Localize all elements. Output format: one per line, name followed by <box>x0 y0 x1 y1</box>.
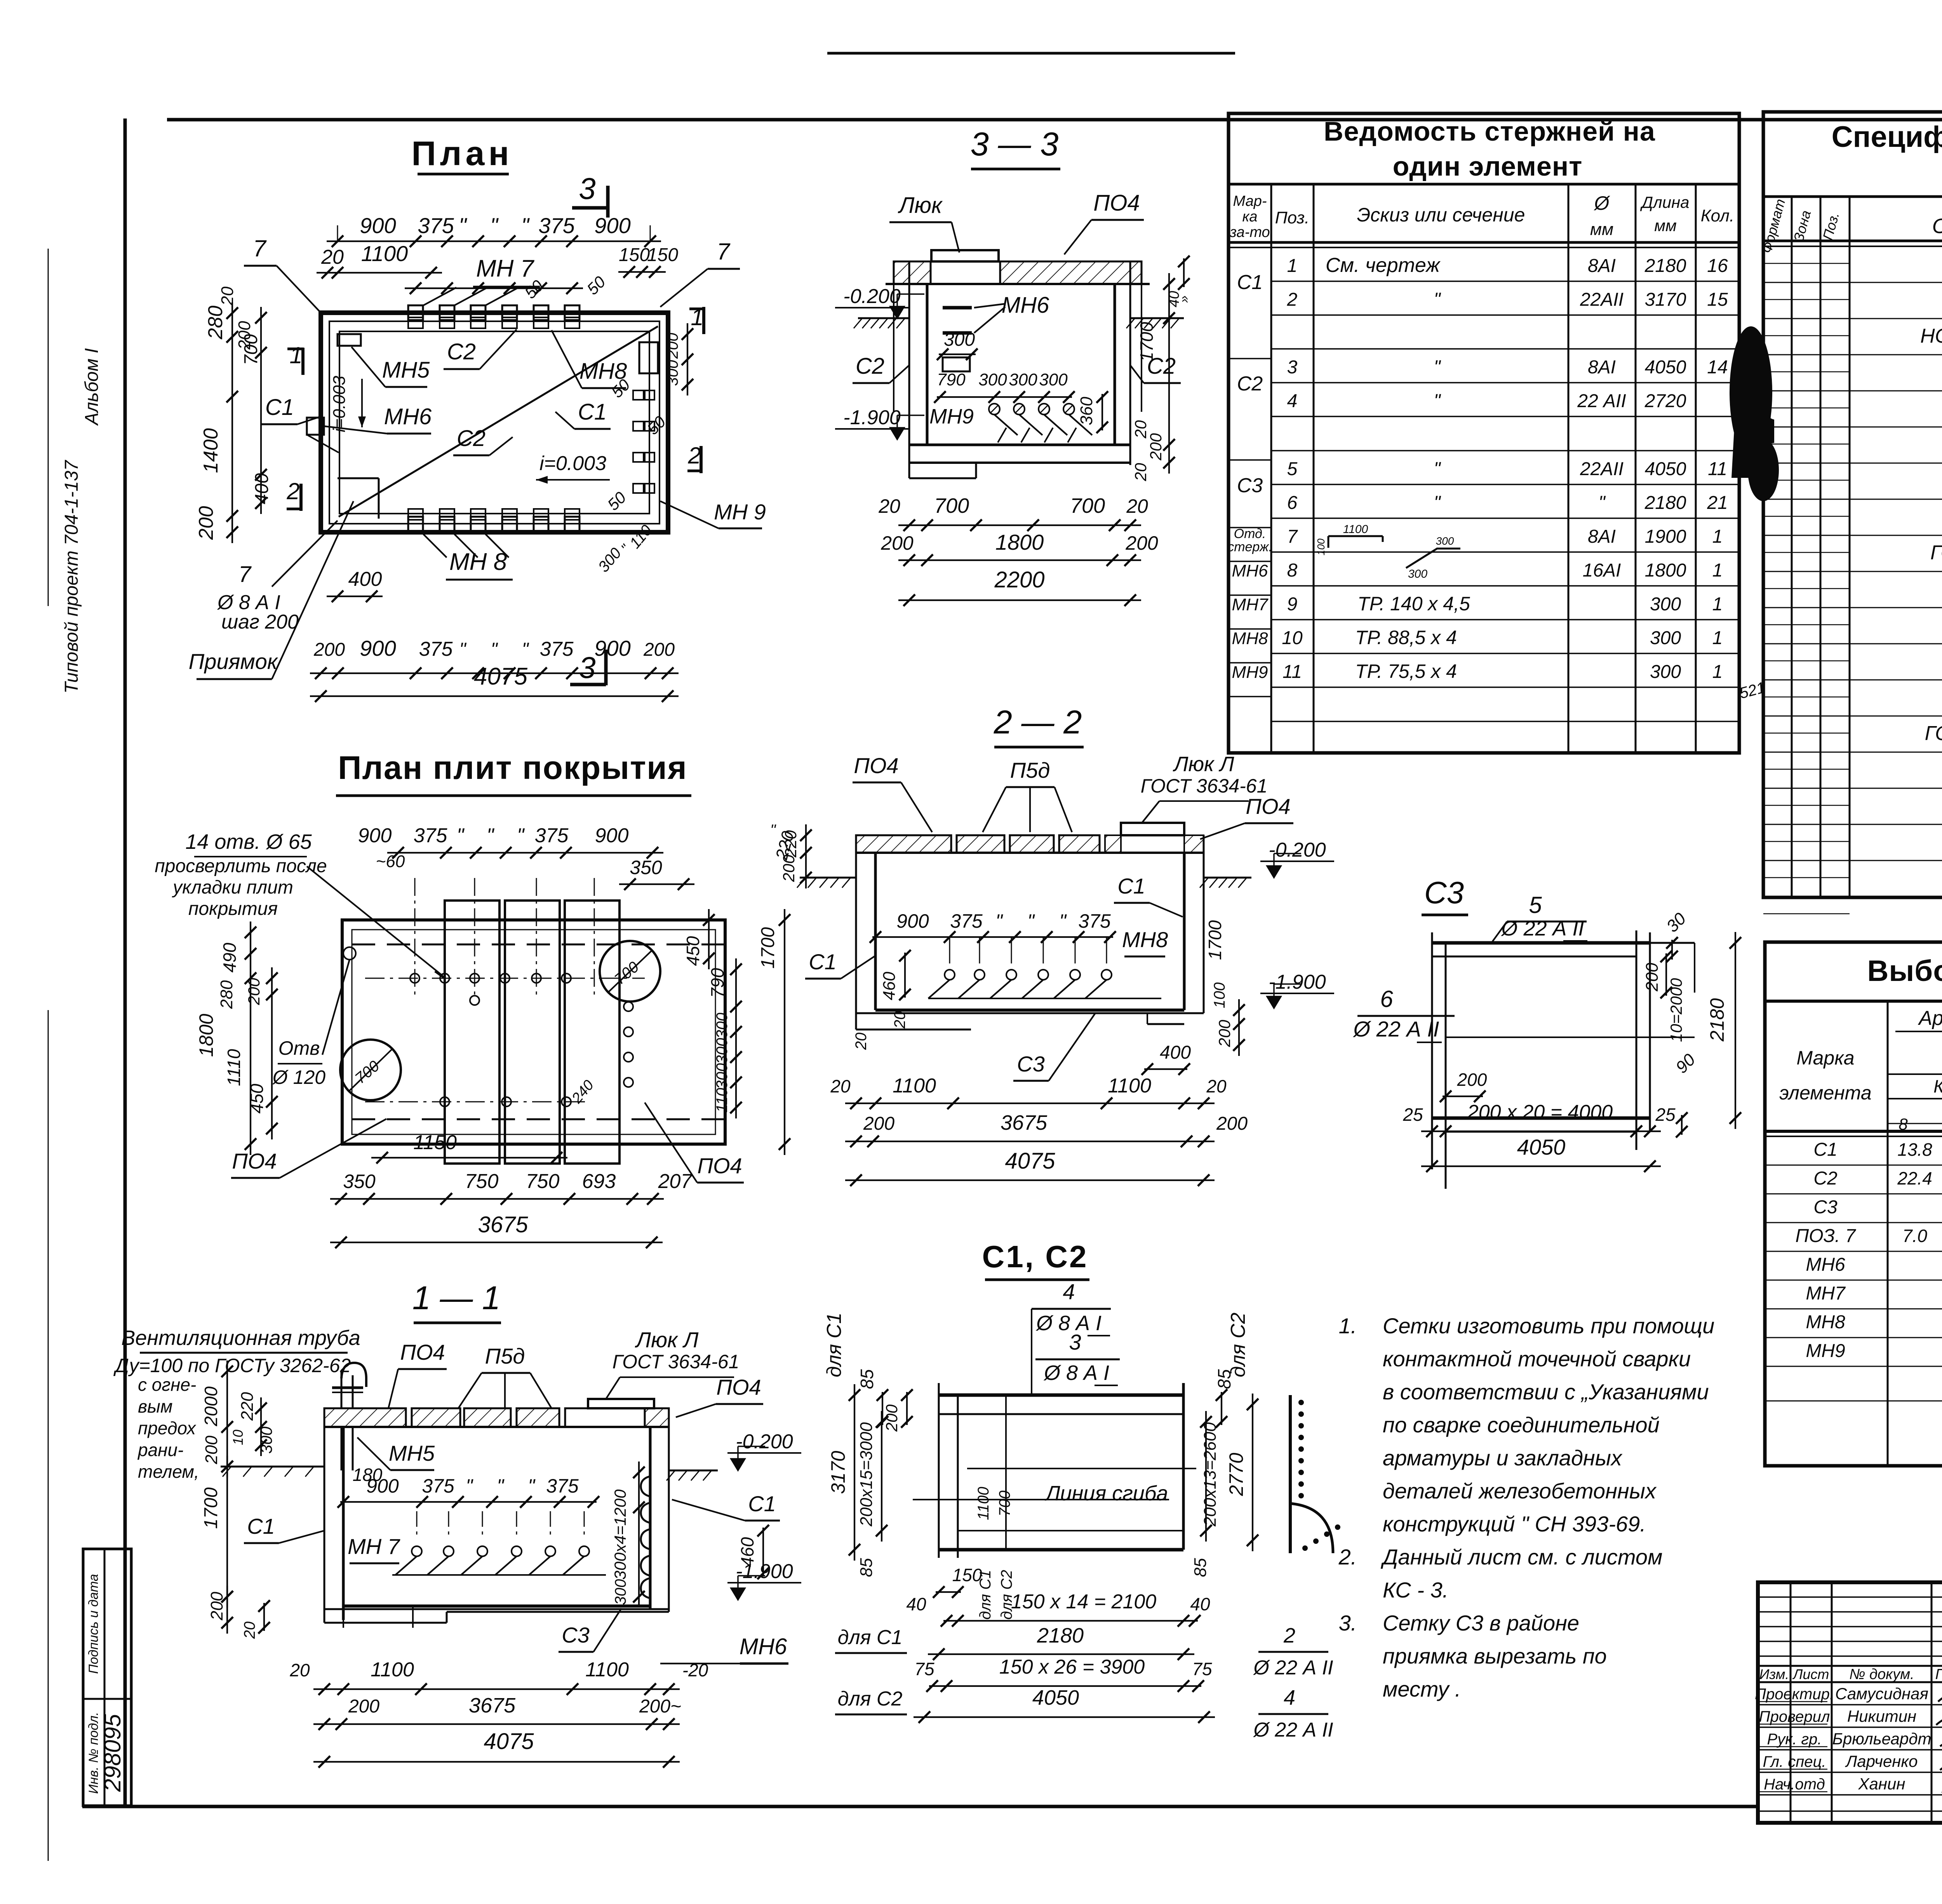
svg-text:План плит покрытия: План плит покрытия <box>338 749 687 786</box>
svg-text:МН7: МН7 <box>1806 1283 1846 1304</box>
svg-text:3675: 3675 <box>469 1694 516 1717</box>
svg-text:2000: 2000 <box>201 1386 221 1427</box>
svg-text:1110: 1110 <box>224 1049 244 1086</box>
svg-text:700: 700 <box>934 494 969 517</box>
svg-text:25: 25 <box>1403 1104 1423 1125</box>
svg-text:Поз.: Поз. <box>1275 208 1310 227</box>
svg-text:С2: С2 <box>1813 1168 1837 1189</box>
svg-text:П5д: П5д <box>485 1344 525 1368</box>
svg-text:С1: С1 <box>1813 1139 1837 1160</box>
svg-text:1100: 1100 <box>1343 523 1368 536</box>
svg-text:Ø 22 А II: Ø 22 А II <box>1353 1017 1439 1041</box>
svg-text:ТР. 75,5 х 4: ТР. 75,5 х 4 <box>1355 660 1457 682</box>
svg-text:21: 21 <box>1707 493 1728 513</box>
svg-text:МН6: МН6 <box>1806 1254 1845 1275</box>
svg-text:ПО4: ПО4 <box>1246 794 1290 819</box>
svg-text:Ø 22 А II: Ø 22 А II <box>1253 1657 1333 1679</box>
svg-text:Арматурные изделия: Арматурные изделия <box>1918 1007 1942 1030</box>
svg-text:1700: 1700 <box>758 927 778 969</box>
svg-text:ПО4: ПО4 <box>1093 190 1140 216</box>
svg-text:ГОСТ 3262-62: ГОСТ 3262-62 <box>1930 542 1942 564</box>
svg-text:МН9: МН9 <box>929 405 974 428</box>
svg-text:конструкций " СН 393-69.: конструкций " СН 393-69. <box>1383 1512 1646 1536</box>
svg-text:2.: 2. <box>1338 1545 1357 1569</box>
svg-text:10: 10 <box>230 1430 246 1445</box>
svg-text:2720: 2720 <box>1644 391 1686 411</box>
svg-text:-1.900: -1.900 <box>1269 971 1326 993</box>
svg-text:": " <box>521 213 530 238</box>
svg-text:по сварке соединительной: по сварке соединительной <box>1383 1413 1660 1437</box>
svg-text:200: 200 <box>207 1592 226 1621</box>
svg-text:200: 200 <box>202 1435 221 1465</box>
svg-text:в соответствии с „Указаниями: в соответствии с „Указаниями <box>1383 1380 1709 1404</box>
svg-text:1100: 1100 <box>361 241 408 266</box>
svg-text:С2: С2 <box>1237 373 1263 395</box>
svg-text:4050: 4050 <box>1032 1686 1079 1709</box>
svg-text:Ларченко: Ларченко <box>1845 1752 1918 1770</box>
svg-text:6: 6 <box>1287 493 1298 513</box>
svg-text:375: 375 <box>414 824 448 847</box>
svg-text:150 х 26 = 3900: 150 х 26 = 3900 <box>999 1656 1145 1678</box>
svg-text:Линия сгиба: Линия сгиба <box>1045 1482 1168 1505</box>
svg-text:МН 9: МН 9 <box>714 500 766 524</box>
svg-text:2180: 2180 <box>1644 256 1686 276</box>
svg-text:9: 9 <box>1287 594 1298 615</box>
svg-text:МН8: МН8 <box>1232 629 1268 648</box>
svg-text:11: 11 <box>1282 662 1302 682</box>
svg-text:200х15=3000: 200х15=3000 <box>857 1422 876 1527</box>
svg-text:22 АII: 22 АII <box>1577 391 1626 411</box>
svg-text:С1, С2: С1, С2 <box>982 1239 1088 1274</box>
svg-text:Данный лист см. с листом: Данный лист см. с листом <box>1380 1545 1662 1569</box>
svg-text:1100: 1100 <box>975 1487 992 1520</box>
svg-text:за-то: за-то <box>1229 224 1270 240</box>
svg-text:375: 375 <box>422 1475 454 1497</box>
svg-text:МН8: МН8 <box>1122 927 1168 952</box>
svg-text:20: 20 <box>241 1622 258 1639</box>
svg-text:": " <box>490 213 499 238</box>
svg-text:375: 375 <box>1078 910 1111 932</box>
svg-text:4050: 4050 <box>1645 357 1686 378</box>
svg-text:С1: С1 <box>265 395 294 420</box>
svg-text:МН9: МН9 <box>1806 1341 1845 1361</box>
svg-text:арматуры и закладных: арматуры и закладных <box>1383 1446 1623 1470</box>
svg-text:220: 220 <box>781 830 800 858</box>
svg-text:См. чертеж: См. чертеж <box>1326 254 1441 277</box>
svg-text:ГОСТ 3634-61: ГОСТ 3634-61 <box>613 1351 740 1373</box>
svg-text:700: 700 <box>996 1491 1013 1517</box>
svg-text:750: 750 <box>465 1170 499 1193</box>
svg-text:": " <box>459 639 466 660</box>
svg-text:~60: ~60 <box>376 852 405 871</box>
svg-text:для С1: для С1 <box>823 1313 846 1378</box>
svg-text:": " <box>517 824 525 847</box>
svg-text:Ведомость стержней на: Ведомость стержней на <box>1324 116 1655 146</box>
svg-text:375: 375 <box>540 638 574 660</box>
svg-text:Ø 120: Ø 120 <box>272 1066 325 1088</box>
svg-text:2 — 2: 2 — 2 <box>994 704 1082 741</box>
svg-text:22АII: 22АII <box>1580 459 1624 479</box>
svg-text:10=2000: 10=2000 <box>1667 978 1685 1042</box>
svg-text:для С2: для С2 <box>838 1688 903 1710</box>
svg-text:Изм.: Изм. <box>1759 1666 1789 1682</box>
svg-text:покрытия: покрытия <box>188 899 278 919</box>
svg-text:С1: С1 <box>578 399 607 425</box>
svg-text:375: 375 <box>418 213 454 238</box>
svg-text:75: 75 <box>914 1659 934 1679</box>
svg-text:-0.200: -0.200 <box>1269 839 1326 861</box>
svg-text:Сетки изготовить при помощи: Сетки изготовить при помощи <box>1383 1313 1714 1338</box>
svg-text:200: 200 <box>882 1404 901 1432</box>
svg-text:300: 300 <box>1009 370 1037 389</box>
svg-text:С3: С3 <box>562 1623 590 1647</box>
svg-text:7: 7 <box>238 562 252 587</box>
svg-text:6: 6 <box>1380 986 1393 1012</box>
svg-text:мм: мм <box>1590 220 1613 239</box>
svg-text:20: 20 <box>878 495 900 517</box>
svg-text:4050: 4050 <box>1517 1135 1566 1159</box>
svg-text:Ø: Ø <box>1594 192 1611 214</box>
svg-text:300: 300 <box>713 1038 731 1064</box>
svg-text:790: 790 <box>707 968 727 998</box>
svg-text:С3: С3 <box>1237 474 1263 497</box>
svg-text:3.: 3. <box>1339 1611 1357 1635</box>
svg-text:300х4=1200: 300х4=1200 <box>611 1489 629 1580</box>
svg-text:16: 16 <box>1707 256 1728 276</box>
svg-text:110: 110 <box>713 1088 731 1113</box>
svg-text:МН6: МН6 <box>1232 561 1268 580</box>
svg-text:1800: 1800 <box>995 530 1044 554</box>
svg-text:С1: С1 <box>247 1514 275 1538</box>
svg-text:3: 3 <box>579 171 595 206</box>
svg-text:3: 3 <box>1287 357 1298 378</box>
svg-text:400: 400 <box>348 568 382 591</box>
svg-text:350: 350 <box>343 1171 376 1192</box>
svg-text:150: 150 <box>619 245 650 265</box>
svg-text:1100: 1100 <box>1108 1075 1151 1097</box>
svg-text:8: 8 <box>1287 560 1298 581</box>
svg-text:С1: С1 <box>748 1491 776 1516</box>
svg-text:900: 900 <box>360 213 396 238</box>
svg-text:Никитин: Никитин <box>1847 1707 1916 1725</box>
svg-text:Люк Л: Люк Л <box>1173 753 1234 776</box>
svg-text:2: 2 <box>286 478 299 504</box>
svg-text:14: 14 <box>1707 357 1728 378</box>
svg-text:2: 2 <box>1287 289 1298 310</box>
svg-text:200: 200 <box>643 639 675 660</box>
svg-text:3 — 3: 3 — 3 <box>971 126 1059 163</box>
svg-text:": " <box>522 639 529 660</box>
svg-text:900: 900 <box>594 636 630 660</box>
svg-text:900: 900 <box>366 1475 399 1497</box>
svg-text:4050: 4050 <box>1645 459 1686 479</box>
svg-text:ПО4: ПО4 <box>400 1340 445 1364</box>
svg-text:месту .: месту . <box>1383 1677 1461 1701</box>
svg-text:3: 3 <box>1069 1330 1081 1354</box>
svg-text:для С1: для С1 <box>838 1626 903 1649</box>
svg-text:20: 20 <box>830 1076 851 1096</box>
svg-text:Длина: Длина <box>1640 193 1689 211</box>
svg-text:С3: С3 <box>1813 1197 1838 1218</box>
svg-text:Проектир.: Проектир. <box>1755 1686 1834 1703</box>
svg-text:МН6: МН6 <box>1002 293 1049 318</box>
svg-text:Проверил: Проверил <box>1759 1708 1830 1725</box>
svg-text:МН 8: МН 8 <box>449 549 507 575</box>
svg-text:МН9: МН9 <box>1232 663 1268 682</box>
svg-text:для С1: для С1 <box>977 1570 994 1620</box>
svg-text:200: 200 <box>313 639 345 660</box>
svg-text:ГОСТ 3634-61: ГОСТ 3634-61 <box>1141 775 1268 797</box>
svg-text:7: 7 <box>253 235 267 261</box>
svg-text:-0.200: -0.200 <box>843 285 901 308</box>
svg-text:": " <box>487 824 495 847</box>
svg-text:": " <box>457 824 465 847</box>
svg-text:-1.900: -1.900 <box>843 406 901 429</box>
svg-text:С1: С1 <box>1117 874 1145 898</box>
svg-text:16АI: 16АI <box>1583 560 1621 581</box>
svg-text:МН8: МН8 <box>1806 1312 1845 1333</box>
svg-text:200: 200 <box>664 333 681 359</box>
svg-text:i=0.003: i=0.003 <box>330 376 349 432</box>
svg-text:100: 100 <box>1211 982 1228 1009</box>
svg-text:1: 1 <box>289 342 302 368</box>
svg-text:1100: 1100 <box>585 1658 629 1681</box>
svg-text:150: 150 <box>647 245 678 265</box>
svg-text:Типовой проект 704-1-137: Типовой проект 704-1-137 <box>61 460 82 693</box>
svg-text:85: 85 <box>1191 1558 1210 1577</box>
svg-text:7.0: 7.0 <box>1902 1226 1927 1246</box>
svg-text:400: 400 <box>252 473 272 504</box>
svg-text:ТР. 88,5 х 4: ТР. 88,5 х 4 <box>1355 627 1457 648</box>
svg-text:ПОЗ. 7: ПОЗ. 7 <box>1796 1226 1857 1246</box>
svg-text:для С2: для С2 <box>1227 1313 1249 1378</box>
svg-text:85: 85 <box>1214 1369 1234 1389</box>
svg-text:мм: мм <box>1654 216 1677 235</box>
svg-text:Отв: Отв <box>278 1037 320 1059</box>
svg-text:8АI: 8АI <box>1588 256 1616 276</box>
svg-text:490: 490 <box>219 942 240 972</box>
svg-text:22АII: 22АII <box>1580 289 1624 310</box>
svg-text:2200: 2200 <box>994 567 1044 592</box>
svg-text:100: 100 <box>1315 538 1327 556</box>
svg-text:1400: 1400 <box>200 428 222 473</box>
svg-text:ПО4: ПО4 <box>716 1375 761 1399</box>
svg-text:Кол.: Кол. <box>1701 206 1734 225</box>
svg-text:20: 20 <box>1206 1076 1227 1096</box>
svg-text:7: 7 <box>717 239 731 265</box>
svg-text:200: 200 <box>1457 1070 1487 1090</box>
svg-text:КС - 3.: КС - 3. <box>1383 1578 1448 1602</box>
svg-text:8АI: 8АI <box>1588 357 1616 378</box>
svg-text:деталей железобетонных: деталей железобетонных <box>1383 1479 1657 1503</box>
svg-text:1700: 1700 <box>201 1487 221 1529</box>
svg-text:Ø 8 А I: Ø 8 А I <box>1043 1361 1109 1385</box>
svg-text:11: 11 <box>1708 459 1727 479</box>
svg-text:20: 20 <box>289 1660 310 1680</box>
svg-text:300: 300 <box>1650 662 1681 682</box>
svg-text:МН5: МН5 <box>389 1441 435 1465</box>
svg-text:укладки плит: укладки плит <box>172 877 293 898</box>
svg-text:Ø 8 А I: Ø 8 А I <box>1035 1312 1102 1335</box>
svg-text:Мар-: Мар- <box>1233 193 1267 209</box>
svg-text:План: План <box>411 134 513 172</box>
svg-text:1100: 1100 <box>893 1075 936 1097</box>
svg-text:750: 750 <box>526 1170 560 1193</box>
svg-text:Подпись: Подпись <box>1935 1666 1942 1683</box>
svg-text:13.8: 13.8 <box>1897 1139 1932 1160</box>
svg-text:900: 900 <box>360 636 396 660</box>
svg-text:Нач.отд: Нач.отд <box>1764 1776 1825 1793</box>
svg-text:20: 20 <box>1131 463 1150 481</box>
svg-text:75: 75 <box>1192 1659 1212 1679</box>
svg-text:-20: -20 <box>682 1660 708 1680</box>
svg-text:200: 200 <box>863 1113 894 1134</box>
svg-text:4: 4 <box>1063 1279 1075 1304</box>
svg-text:С2: С2 <box>447 339 476 364</box>
svg-text:460: 460 <box>880 972 899 1000</box>
svg-text:1: 1 <box>1712 628 1723 648</box>
svg-text:Брюльеардт: Брюльеардт <box>1832 1730 1932 1748</box>
svg-text:Вентиляционная труба: Вентиляционная труба <box>121 1326 360 1350</box>
svg-text:1900: 1900 <box>1645 526 1686 547</box>
svg-text:Приямок: Приямок <box>189 649 278 674</box>
svg-text:": " <box>1434 289 1441 310</box>
svg-text:300: 300 <box>1408 568 1427 580</box>
svg-text:200~: 200~ <box>639 1696 681 1717</box>
svg-text:": " <box>1059 910 1067 932</box>
svg-text:1700: 1700 <box>1136 322 1157 362</box>
svg-text:Ø 22 А II: Ø 22 А II <box>1500 917 1584 940</box>
svg-text:стерж.: стерж. <box>1227 540 1272 554</box>
svg-text:": " <box>459 213 467 238</box>
svg-text:40: 40 <box>906 1594 926 1614</box>
svg-text:693: 693 <box>582 1170 616 1193</box>
svg-text:300: 300 <box>1650 594 1681 615</box>
svg-text:700: 700 <box>1070 494 1105 517</box>
svg-text:450: 450 <box>683 936 703 966</box>
svg-text:280: 280 <box>204 306 227 340</box>
svg-text:2180: 2180 <box>1644 493 1686 513</box>
svg-text:900: 900 <box>595 824 629 847</box>
svg-text:300: 300 <box>713 1013 731 1039</box>
svg-text:С3: С3 <box>1017 1052 1045 1076</box>
svg-text:200х13=2600: 200х13=2600 <box>1201 1422 1220 1527</box>
svg-text:20: 20 <box>891 1011 908 1029</box>
svg-text:": " <box>995 910 1003 932</box>
svg-text:": " <box>1598 493 1606 513</box>
svg-text:С2: С2 <box>856 354 884 379</box>
svg-text:4075: 4075 <box>1005 1148 1055 1174</box>
svg-text:Обозначение: Обозначение <box>1932 214 1942 238</box>
svg-text:3170: 3170 <box>827 1451 849 1494</box>
svg-text:375: 375 <box>538 213 575 238</box>
svg-text:1700: 1700 <box>1205 920 1225 960</box>
svg-text:200: 200 <box>1125 532 1158 554</box>
svg-text:20: 20 <box>853 1033 870 1050</box>
svg-text:4075: 4075 <box>484 1729 534 1754</box>
svg-text:2: 2 <box>1283 1624 1295 1647</box>
svg-text:ТР. 140 х 4,5: ТР. 140 х 4,5 <box>1357 593 1470 615</box>
svg-text:200: 200 <box>195 506 218 540</box>
svg-text:375: 375 <box>546 1475 579 1497</box>
svg-text:НС-01-04 вып. 2: НС-01-04 вып. 2 <box>1920 325 1942 347</box>
svg-text:Сетку С3 в районе: Сетку С3 в районе <box>1383 1611 1579 1635</box>
svg-text:с огне-: с огне- <box>138 1374 196 1395</box>
svg-text:МН6: МН6 <box>384 404 432 429</box>
svg-text:рани-: рани- <box>137 1440 183 1460</box>
svg-text:900: 900 <box>358 824 392 847</box>
svg-text:150 х 14 = 2100: 150 х 14 = 2100 <box>1011 1590 1157 1613</box>
svg-text:ПО4: ПО4 <box>854 753 898 778</box>
svg-text:": " <box>1434 357 1441 378</box>
svg-text:1100: 1100 <box>371 1658 414 1681</box>
svg-text:2: 2 <box>687 442 701 469</box>
svg-text:300: 300 <box>1436 535 1454 547</box>
svg-text:1800: 1800 <box>195 1014 217 1057</box>
svg-text:5: 5 <box>1287 459 1298 479</box>
svg-text:контактной точечной сварки: контактной точечной сварки <box>1383 1347 1691 1371</box>
svg-text:460: 460 <box>737 1537 757 1567</box>
svg-text:450: 450 <box>247 1084 267 1113</box>
svg-text:3675: 3675 <box>478 1212 528 1237</box>
svg-text:": " <box>491 639 498 660</box>
svg-text:375: 375 <box>419 638 453 660</box>
svg-text:элемента: элемента <box>1779 1082 1871 1104</box>
svg-text:3170: 3170 <box>1645 289 1686 310</box>
svg-text:20: 20 <box>218 286 237 306</box>
svg-text:ГОСТ 3634 - 61: ГОСТ 3634 - 61 <box>1925 722 1942 745</box>
svg-text:700: 700 <box>241 334 261 365</box>
svg-text:Класс А I: Класс А I <box>1933 1076 1942 1096</box>
svg-text:": " <box>1434 493 1441 513</box>
svg-text:280: 280 <box>217 980 236 1009</box>
svg-text:№ докум.: № докум. <box>1849 1666 1914 1683</box>
svg-text:МН7: МН7 <box>1232 595 1269 614</box>
svg-text:Спецификация изделий, арма: Спецификация изделий, арматуры и бетона <box>1832 120 1942 153</box>
svg-text:790: 790 <box>937 370 966 389</box>
svg-text:вым: вым <box>138 1396 172 1416</box>
svg-text:МН 7: МН 7 <box>348 1534 400 1559</box>
svg-text:Альбом I: Альбом I <box>82 348 102 426</box>
svg-text:200: 200 <box>1216 1113 1248 1134</box>
svg-text:3: 3 <box>579 650 595 685</box>
svg-text:ПО4: ПО4 <box>697 1153 742 1178</box>
svg-text:350: 350 <box>630 857 662 878</box>
svg-text:Отд.: Отд. <box>1234 526 1266 541</box>
svg-text:i=0.003: i=0.003 <box>539 452 606 475</box>
svg-text:Самусидная: Самусидная <box>1835 1685 1928 1703</box>
svg-text:МН5: МН5 <box>382 357 430 383</box>
svg-text:С2: С2 <box>457 426 486 451</box>
svg-text:1: 1 <box>1287 256 1298 276</box>
svg-text:200: 200 <box>1147 433 1165 461</box>
svg-text:1.: 1. <box>1339 1313 1357 1338</box>
svg-text:2180: 2180 <box>1706 998 1728 1042</box>
svg-text:300: 300 <box>944 329 975 350</box>
svg-text:7: 7 <box>1287 526 1298 547</box>
svg-text:900: 900 <box>896 910 929 932</box>
svg-text:200: 200 <box>1643 963 1662 992</box>
svg-text:1 — 1: 1 — 1 <box>412 1280 501 1317</box>
svg-text:предох: предох <box>138 1418 197 1438</box>
svg-text:": " <box>1434 459 1441 479</box>
svg-text:-0.200: -0.200 <box>736 1430 793 1453</box>
svg-text:1150: 1150 <box>413 1131 457 1154</box>
svg-text:2770: 2770 <box>1225 1453 1247 1496</box>
svg-text:298095: 298095 <box>99 1714 125 1792</box>
svg-text:МН 7: МН 7 <box>476 255 535 282</box>
svg-text:Ø 22 А II: Ø 22 А II <box>1253 1719 1333 1741</box>
